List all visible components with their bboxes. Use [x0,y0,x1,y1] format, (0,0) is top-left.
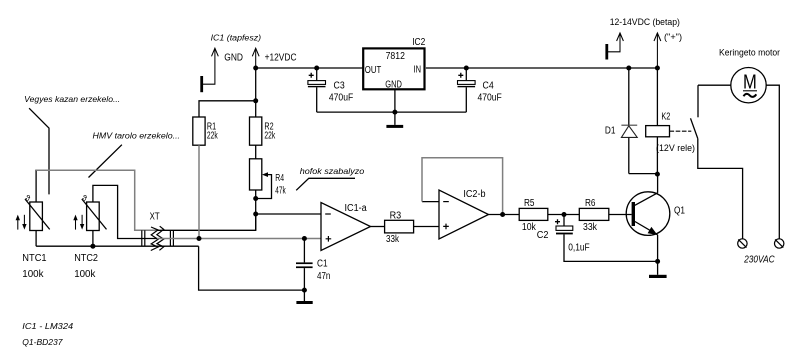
node C1 bottom [302,288,307,293]
svg-text:C1: C1 [317,259,328,270]
wire NTC2 top lead [93,185,157,238]
wire R2 to R4 [255,145,257,159]
relay coil K2 [646,68,695,174]
svg-text:R6: R6 [585,198,596,209]
svg-text:Q1-BD237: Q1-BD237 [22,337,62,347]
node K2 top [655,66,660,71]
resistor R5 [519,198,548,233]
node R1/signal junction [197,236,202,241]
svg-text:Q1: Q1 [674,206,685,217]
wire XT middle to op-amp + (gray) [157,238,321,240]
svg-text:0,1uF: 0,1uF [568,243,590,254]
wire XT top to divider (black) [157,214,256,230]
wire sensor common drop to ground bus [199,246,305,290]
wire IC2 GND pin [394,89,396,125]
svg-text:10k: 10k [522,222,537,233]
label HMV tarolo erzekelo with leader [89,131,181,178]
svg-text:R4: R4 [275,173,284,184]
svg-text:ϑ: ϑ [82,193,87,203]
svg-text:GND: GND [224,53,243,64]
svg-text:GND: GND [385,79,402,90]
svg-text:C4: C4 [483,81,495,92]
potentiometer R4 [250,159,287,199]
svg-text:470uF: 470uF [329,93,353,104]
ground bar (C1) [296,301,312,304]
resistor R1 [193,117,219,145]
node R4 wiper tie [253,196,258,201]
svg-text:12-14VDC (betap): 12-14VDC (betap) [610,17,680,27]
svg-text:100k: 100k [22,269,44,280]
svg-text:+12VDC: +12VDC [265,53,297,64]
power arrow ("+") [654,32,682,68]
op-amp IC2-b [439,189,489,239]
svg-text:OUT: OUT [365,65,381,76]
svg-text:IC1 (tapfesz): IC1 (tapfesz) [211,33,262,43]
svg-text:K2: K2 [661,111,670,122]
svg-text:47n: 47n [317,271,330,282]
node +12VDC rail junction [253,66,258,71]
resistor R6 [579,198,609,233]
svg-text:IC1 - LM324: IC1 - LM324 [22,321,73,331]
wire +12VDC down to divider branch [255,68,257,101]
wire R3 to IC2-b + [414,226,439,228]
svg-text:("+"): ("+") [664,32,682,42]
capacitor C2 [537,215,658,262]
ground bar (IC2) [386,125,403,128]
svg-text:XT: XT [150,212,160,223]
resistor R3 [385,211,414,246]
svg-text:47k: 47k [275,186,286,197]
wire C1 to ground [303,290,305,301]
svg-text:ϑ: ϑ [25,193,30,203]
motor M [698,68,779,239]
ground flag (betap) [607,33,624,60]
svg-text:hofok szabalyzo: hofok szabalyzo [300,166,365,176]
wire NTC1 bottom lead [35,231,37,247]
op-amp IC1-a [321,203,371,251]
node divider branch [253,98,258,103]
svg-text:R5: R5 [524,198,535,209]
wire D1 anode to coil bottom [629,173,658,175]
capacitor C1 [296,239,330,291]
terminal 230VAC right [775,239,784,248]
svg-text:HMV tarolo erzekelo...: HMV tarolo erzekelo... [93,131,181,141]
dashed actuator link K2 to contact [670,130,692,132]
node R5/R6/C2 [562,212,567,217]
svg-text:IN: IN [414,65,422,76]
svg-text:IC2: IC2 [412,37,425,48]
svg-text:NTC1: NTC1 [22,253,47,264]
node D1 top [626,66,631,71]
svg-text:100k: 100k [74,269,96,280]
thermistor NTC2 [73,193,106,280]
wire R1 bottom to signal (gray) [198,145,200,238]
svg-text:33k: 33k [386,234,400,245]
transistor Q1 [626,174,685,275]
wire NTC2 bottom lead [92,231,94,247]
wire R5 to node [548,214,580,216]
relay contact switch [691,85,743,239]
svg-text:22k: 22k [264,131,275,142]
wire R6 to base [609,214,632,216]
capacitor C3 [308,68,353,112]
wire +12VDC top rail left [256,67,363,69]
terminal XT twisted pair [142,212,174,251]
wire IC2-b output [489,214,520,216]
wire IC1-a output [371,226,385,228]
label hofok szabalyzo with leader [296,166,364,190]
svg-text:C3: C3 [334,81,346,92]
svg-text:(12V rele): (12V rele) [656,143,695,153]
svg-text:Vegyes kazan erzekelo...: Vegyes kazan erzekelo... [24,94,120,104]
node C1 top [302,236,307,241]
svg-text:22k: 22k [207,131,218,142]
svg-text:IC2-b: IC2-b [463,189,485,200]
node emitter junction [655,259,660,264]
svg-text:33k: 33k [583,222,598,233]
wire R4 bottom lead [255,190,257,230]
wire input rail right of IC2 [426,67,658,69]
ground bar (Q1) [649,275,667,278]
svg-text:NTC2: NTC2 [74,253,98,264]
svg-text:R3: R3 [390,211,402,222]
node IC2 ground junction [392,110,397,115]
wire feedback loop (gray) [422,158,503,215]
svg-text:M: M [743,72,757,94]
svg-text:D1: D1 [605,126,616,137]
svg-text:7812: 7812 [386,51,406,62]
ground flag GND (IC1 supply) [202,48,243,92]
svg-text:230VAC: 230VAC [743,255,775,266]
wire to IC1-a inverting input [256,213,321,215]
resistor R2 [250,117,276,145]
svg-text:IC1-a: IC1-a [345,203,368,214]
node coil/diode/collector junction [655,172,660,177]
power arrow +12VDC [252,48,296,68]
wire NTC1 signal loop (gray) [35,170,37,202]
wire capacitor ground bus [317,111,467,113]
node NTC2 bottom [90,244,95,249]
wire branch to R1 top [199,101,256,117]
svg-text:C2: C2 [537,230,549,241]
node IC2-b output [500,212,505,217]
thermistor NTC1 [16,193,50,280]
svg-text:Keringeto motor: Keringeto motor [719,48,780,58]
svg-text:470uF: 470uF [478,93,502,104]
terminal 230VAC left [738,239,747,248]
label Vegyes kazan erzekelo with leader [24,94,120,194]
regulator IC2 7812 [363,37,425,90]
wire sensor common bottom [36,245,199,247]
node C3 top [314,66,319,71]
node inverting input branch [253,212,258,217]
wire R2 top lead [255,101,257,117]
node C4 top [464,66,469,71]
diode D1 [605,68,637,174]
wire IC2-b inverting stub [422,201,439,203]
capacitor C4 [458,68,502,112]
